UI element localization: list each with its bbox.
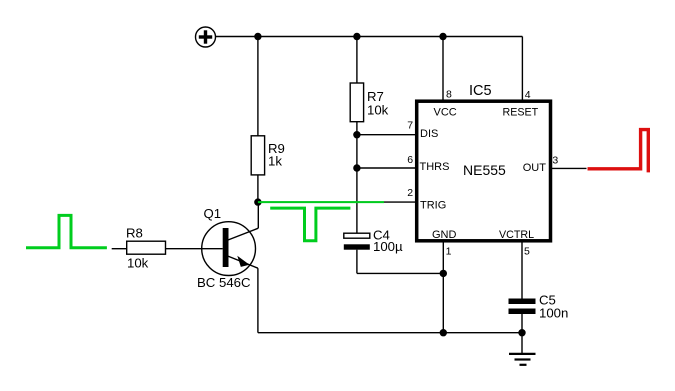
junction top rail / R7 bbox=[353, 33, 360, 40]
wire pin5 VCTRL drop bbox=[521, 243, 523, 299]
junction top rail / R9 bbox=[254, 33, 261, 40]
svg-text:OUT: OUT bbox=[523, 162, 547, 174]
junction top rail / pin8 bbox=[439, 33, 446, 40]
wire R7 top bbox=[356, 37, 358, 84]
wire OUT pin3 bbox=[552, 167, 587, 169]
resistor R8 bbox=[127, 241, 166, 254]
svg-text:10k: 10k bbox=[127, 255, 149, 270]
svg-text:VCTRL: VCTRL bbox=[499, 229, 534, 241]
wire Q1 emitter diagonal bbox=[226, 256, 258, 269]
capacitor C4 bottom plate bbox=[344, 244, 370, 249]
svg-text:IC5: IC5 bbox=[469, 83, 492, 99]
svg-text:8: 8 bbox=[446, 89, 452, 101]
wire pin1 GND drop bbox=[442, 243, 444, 333]
wire THRS pin6 bbox=[357, 167, 417, 169]
wire pin8 VCC drop bbox=[442, 37, 444, 102]
wire Q1 collector vertical bbox=[257, 202, 259, 228]
svg-text:BC 546C: BC 546C bbox=[197, 275, 251, 290]
capacitor C5 bottom plate bbox=[509, 309, 536, 315]
svg-text:10k: 10k bbox=[367, 103, 389, 118]
wire DIS pin7 bbox=[357, 134, 417, 136]
junction THRS bbox=[353, 164, 360, 171]
junction R9 / TRIG / collector bbox=[254, 198, 261, 205]
transistor Q1 circle bbox=[202, 222, 256, 276]
junction R7 bottom / DIS bbox=[353, 131, 360, 138]
wire R7 bottom to C4 bbox=[356, 122, 358, 234]
svg-text:1: 1 bbox=[446, 245, 452, 257]
wire Q1 collector diagonal bbox=[227, 228, 258, 240]
svg-text:4: 4 bbox=[525, 89, 531, 101]
svg-text:TRIG: TRIG bbox=[420, 200, 446, 212]
svg-text:100µ: 100µ bbox=[373, 239, 403, 254]
wire R9 bottom bbox=[257, 175, 259, 202]
wire Q1 emitter vertical bbox=[257, 268, 259, 333]
svg-text:6: 6 bbox=[407, 154, 413, 166]
resistor R7 bbox=[350, 83, 363, 122]
junction C5 / bottom rail / ground bbox=[518, 329, 525, 336]
svg-text:1k: 1k bbox=[268, 153, 282, 168]
resistor R9 bbox=[251, 136, 264, 175]
capacitor C5 top plate bbox=[509, 299, 536, 305]
svg-text:NE555: NE555 bbox=[463, 162, 506, 178]
wire TRIG pin2 bbox=[258, 201, 417, 203]
wire top rail VCC bbox=[216, 36, 523, 38]
wire C5 bottom to rail bbox=[521, 314, 523, 333]
wire input left bbox=[112, 248, 127, 250]
svg-text:R8: R8 bbox=[126, 226, 143, 241]
wire ground stem bbox=[521, 333, 523, 353]
svg-text:Q1: Q1 bbox=[204, 206, 222, 221]
wire R8 to base bbox=[166, 248, 223, 250]
svg-text:7: 7 bbox=[407, 120, 413, 132]
svg-text:3: 3 bbox=[552, 154, 558, 166]
svg-text:THRS: THRS bbox=[420, 161, 450, 173]
wire C4 bottom bbox=[356, 250, 358, 274]
svg-text:100n: 100n bbox=[539, 306, 568, 321]
wire C4 to pin1 bbox=[357, 272, 443, 274]
junction C4 / pin1 bbox=[440, 270, 447, 277]
power supply + symbol bbox=[196, 27, 216, 47]
wire bottom rail bbox=[258, 332, 522, 334]
op IC5 NE555 body bbox=[417, 101, 551, 241]
svg-text:VCC: VCC bbox=[434, 106, 457, 118]
ground bbox=[509, 354, 536, 365]
capacitor C4 top plate bbox=[344, 233, 370, 238]
wire pin4 RESET drop bbox=[521, 37, 523, 102]
red output pulse waveform bbox=[588, 130, 649, 173]
green TRIG wire highlight bbox=[258, 201, 384, 203]
junction pin1 / bottom rail bbox=[440, 329, 447, 336]
svg-text:GND: GND bbox=[432, 229, 457, 241]
transistor Q1 base bar bbox=[223, 228, 229, 267]
wire R9 top bbox=[257, 37, 259, 137]
svg-text:DIS: DIS bbox=[420, 128, 438, 140]
svg-text:2: 2 bbox=[407, 187, 413, 199]
svg-text:RESET: RESET bbox=[503, 107, 539, 119]
svg-text:5: 5 bbox=[524, 246, 530, 258]
green input pulse waveform bbox=[26, 215, 107, 247]
Q1 emitter arrow bbox=[237, 256, 249, 267]
green inverted pulse waveform at TRIG bbox=[270, 208, 350, 241]
